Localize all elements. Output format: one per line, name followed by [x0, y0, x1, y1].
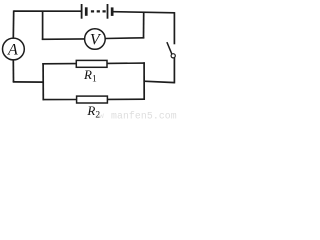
battery cell 1 positive plate (long) [81, 4, 83, 19]
wire: voltmeter branch left horizontal [42, 38, 85, 40]
wire: left vertical below ammeter [12, 59, 14, 82]
wire: bottom-left feed to parallel network [13, 81, 44, 83]
wire: top lead from battery to right corner [114, 12, 175, 13]
wire: R1 left lead [42, 63, 76, 65]
node: parallel network right bar [143, 62, 145, 100]
wire: top lead from left corner to battery plus plate [14, 10, 81, 12]
wire: voltmeter branch right riser to top wire [143, 12, 145, 38]
ammeter A1 circle [3, 38, 25, 60]
wire: R2 right lead [107, 98, 145, 100]
wire: voltmeter branch left riser from top wire [42, 11, 44, 40]
wire: bottom-right output from parallel network to right corner [144, 81, 175, 82]
svg-text:w: w [99, 112, 104, 120]
voltmeter V1 circle [85, 29, 106, 50]
wire: R2 left lead [43, 99, 78, 101]
svg-text:R1: R1 [83, 67, 97, 85]
battery cell 1 negative plate (short thick) [85, 7, 88, 16]
svg-text:manfen5.com: manfen5.com [111, 111, 177, 121]
resistor R2 box [77, 96, 108, 103]
battery cell 2 positive plate (long) [107, 4, 109, 19]
wire: dashed link between cells [91, 10, 106, 12]
wire: right vertical from switch pivot down to bottom corner [173, 58, 175, 84]
wire: left vertical from top corner down to ammeter [12, 10, 14, 38]
svg-text:A: A [7, 42, 18, 59]
wire: voltmeter branch right horizontal [105, 37, 144, 40]
resistor R1 box [76, 60, 107, 67]
switch S1 blade (open) [167, 42, 172, 54]
switch S1 pivot circle [171, 54, 175, 58]
node: parallel network left bar [42, 63, 44, 100]
battery cell 2 negative plate (short thick) [111, 7, 114, 16]
wire: right vertical from top corner to switch upper contact [173, 12, 175, 44]
svg-text:V: V [90, 32, 102, 49]
wire: R1 right lead [107, 62, 145, 64]
